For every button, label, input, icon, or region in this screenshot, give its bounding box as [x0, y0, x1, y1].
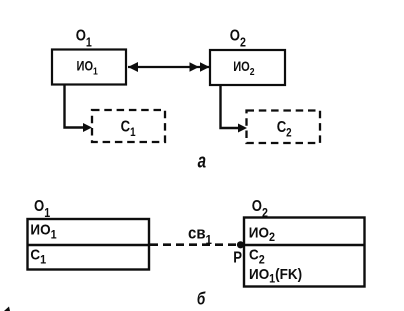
wire: double arrow between IO1 and IO2: [128, 66, 209, 68]
text IO1: [77, 58, 99, 77]
svg-text:ИО2: ИО2: [249, 225, 275, 245]
svg-text:С2: С2: [249, 247, 265, 267]
svg-text:ИО1: ИО1: [77, 58, 99, 77]
svg-text:О1: О1: [34, 198, 50, 220]
row text IO1(FK): [249, 266, 302, 286]
table O2 box: [244, 218, 365, 287]
svg-text:Р: Р: [233, 249, 242, 266]
label O2 (bottom): [252, 198, 268, 220]
dashed box C1: [92, 110, 165, 142]
text C1: [121, 118, 136, 139]
stray mark bottom-left: [4, 307, 10, 311]
table O1 box: [28, 219, 150, 270]
wire: L-connector IO1 to C1: [65, 86, 87, 128]
text C2: [277, 119, 292, 140]
svg-text:ИО1(FK): ИО1(FK): [249, 266, 302, 286]
table O2 divider: [244, 244, 365, 246]
arrowhead right outer (points to IO2): [200, 62, 210, 71]
svg-text:С1: С1: [30, 247, 46, 267]
label O1 (top): [76, 28, 92, 50]
text IO2: [233, 59, 254, 78]
wire: dashed relation sv1: [150, 243, 237, 246]
svg-text:С1: С1: [121, 118, 136, 139]
label O2 (top): [230, 28, 246, 50]
wire: L-connector IO2 to C2: [221, 86, 242, 129]
svg-text:С2: С2: [277, 119, 292, 140]
label a (part marker): [198, 150, 207, 173]
row text C2: [249, 247, 265, 267]
dashed box C2: [247, 111, 321, 144]
svg-text:О2: О2: [230, 28, 246, 50]
label P: [233, 249, 242, 266]
arrowhead left (points to IO1): [128, 62, 138, 72]
label O1 (bottom): [34, 198, 50, 220]
block IO1 box: [52, 50, 126, 85]
row text IO1: [30, 222, 57, 242]
row text C1: [30, 247, 46, 267]
arrowhead into C1: [83, 123, 92, 132]
row text IO2: [249, 225, 275, 245]
svg-text:ИО2: ИО2: [233, 59, 254, 78]
table O1 divider: [28, 244, 150, 246]
arrowhead into C2: [238, 124, 247, 133]
block IO2 box: [210, 50, 285, 85]
label sv1: [188, 224, 212, 246]
arrowhead right inner (points to IO2): [190, 62, 200, 71]
svg-text:О1: О1: [76, 28, 92, 50]
svg-text:ИО1: ИО1: [30, 222, 57, 242]
label b (part marker): [197, 290, 206, 309]
svg-text:б: б: [197, 290, 206, 309]
svg-text:а: а: [198, 150, 207, 173]
relation end marker (dot-arrow) at P: [237, 241, 245, 248]
